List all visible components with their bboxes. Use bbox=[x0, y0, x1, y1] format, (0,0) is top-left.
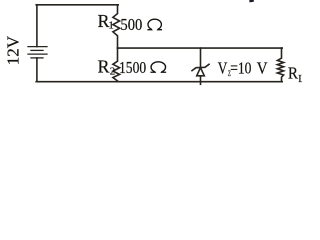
zener diode D1 cathode bar (bent ends) bbox=[192, 64, 209, 70]
wire middle horizontal bbox=[118, 47, 283, 49]
wire battery bottom lead bbox=[36, 58, 38, 82]
svg-text:12V: 12V bbox=[4, 35, 23, 65]
svg-text:2: 2 bbox=[110, 66, 116, 78]
wire zener branch top lead bbox=[200, 48, 202, 67]
svg-text:1500: 1500 bbox=[119, 58, 146, 77]
resistor RL zigzag on right edge bbox=[277, 48, 283, 82]
zener diode D1 anode triangle bbox=[197, 68, 205, 76]
svg-text:=10: =10 bbox=[230, 59, 252, 78]
svg-text:R: R bbox=[98, 57, 110, 77]
svg-text:1: 1 bbox=[108, 20, 114, 32]
stray cropped glyph fragment at top edge bbox=[249, 0, 253, 2]
svg-text:L: L bbox=[298, 74, 302, 85]
svg-text:V: V bbox=[218, 59, 228, 78]
wire bottom horizontal bbox=[36, 81, 282, 83]
battery B1 12V plates bbox=[28, 47, 47, 58]
svg-text:500: 500 bbox=[120, 16, 142, 34]
wire top horizontal bbox=[36, 4, 118, 6]
wire left vertical (battery top lead) bbox=[36, 5, 38, 47]
svg-text:V: V bbox=[257, 60, 268, 78]
resistor R1 zigzag bbox=[113, 5, 120, 48]
resistor R2 zigzag bbox=[113, 48, 120, 81]
wire zener branch bottom lead (overshoots bottom wire) bbox=[200, 76, 202, 85]
svg-text:R: R bbox=[288, 65, 299, 83]
